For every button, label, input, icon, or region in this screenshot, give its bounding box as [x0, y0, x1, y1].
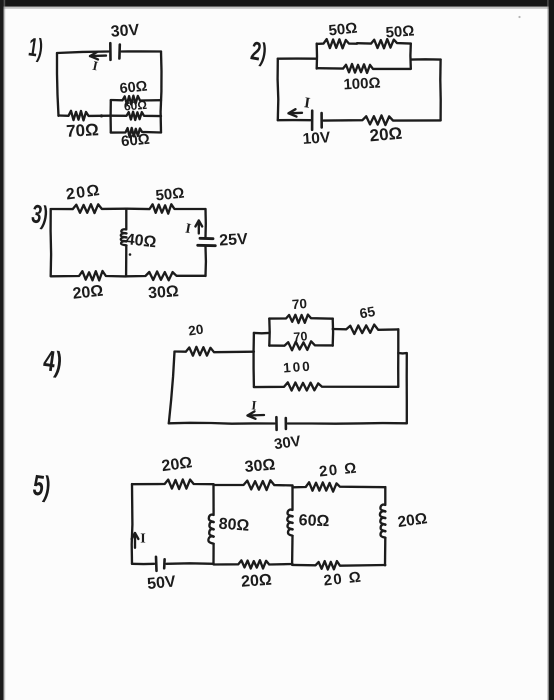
current arrow I (C1) [90, 54, 106, 57]
resistor 100 (C4 middle) [254, 382, 398, 390]
wire: C1 top-right segment [122, 50, 162, 52]
wire: C4 bottom-left segment [169, 422, 275, 425]
resistor 30Ω (C5 top 2) [214, 480, 293, 490]
scan border: left black bar [0, 0, 4, 700]
resistor 20Ω (C2 bottom) [324, 115, 441, 125]
wire: C2 left connector [278, 57, 317, 59]
battery 30V (C1) [109, 43, 112, 60]
wire: C5 bottom segment battery to J1 [167, 562, 214, 565]
wire: C2 box right edge [409, 44, 412, 69]
wire: C2 left side [276, 59, 279, 120]
current arrow I (C2) [289, 112, 303, 115]
svg-text:60Ω: 60Ω [123, 98, 147, 114]
stray scan speck (top right) [518, 16, 520, 18]
svg-text:20Ω: 20Ω [369, 124, 403, 146]
resistor 50Ω (C2 series 2) [357, 39, 411, 48]
resistor 60Ω (C1 parallel middle) [111, 112, 161, 120]
resistor 80Ω (C5 vertical 1) [208, 485, 213, 564]
current arrow up (C3) [198, 221, 200, 234]
resistor 20 (C4 left) [175, 347, 254, 356]
svg-text:80Ω: 80Ω [218, 516, 250, 535]
resistor 70 (C4 parallel bottom) [269, 341, 332, 350]
battery 30V (C4) [275, 417, 278, 430]
current arrow I (C4) [248, 414, 265, 417]
svg-text:50V: 50V [146, 573, 176, 593]
resistor 60Ω (C1 parallel bottom) [111, 128, 161, 137]
svg-text:50Ω: 50Ω [155, 185, 185, 205]
resistor 50Ω (C2 series 1) [317, 39, 357, 48]
wire: C1 right side [159, 52, 162, 133]
wire: C2 bottom-left segment [278, 119, 311, 121]
resistor 50Ω (C3 top-right) [126, 204, 205, 213]
wire: C5 left side [131, 484, 134, 564]
wire: C2 right side [439, 60, 442, 121]
battery 10V (C2) [311, 111, 314, 130]
wire: C3 right side lower [204, 247, 207, 277]
resistor 65 (C4) [333, 325, 399, 334]
resistor 70 (C4 parallel top) [269, 315, 332, 323]
svg-text:50Ω: 50Ω [385, 22, 415, 41]
svg-text:50Ω: 50Ω [328, 20, 358, 40]
wire: C3 right side upper [204, 209, 207, 237]
wire: C4 connector to parallel box [254, 332, 269, 335]
svg-text:65: 65 [358, 303, 376, 321]
battery 25V (C3, in right side) [200, 237, 213, 240]
wire: C4 right stub to outer edge [398, 353, 407, 423]
current arrow up (C5) [134, 533, 136, 548]
svg-text:70: 70 [293, 329, 308, 344]
resistor 60Ω (C5 vertical 2) [287, 486, 292, 565]
resistor 30Ω (C3 bottom-right) [126, 272, 205, 281]
svg-text:20: 20 [187, 322, 204, 339]
resistor 20Ω (C3 top-left) [51, 204, 127, 213]
svg-text:20Ω: 20Ω [72, 283, 104, 303]
scan border: right black bar [549, 0, 554, 700]
svg-text:70Ω: 70Ω [66, 120, 99, 141]
wire: C4 bottom-right segment [288, 422, 407, 425]
wire: C3 left side [49, 209, 52, 276]
wire: C4 box left edge [268, 319, 271, 346]
resistor 60Ω (C1 parallel top) [111, 96, 161, 105]
resistor 100Ω (C2 parallel) [317, 64, 411, 73]
svg-text:30Ω: 30Ω [244, 456, 276, 476]
svg-text:20Ω: 20Ω [241, 572, 273, 591]
resistor 40Ω (C3 middle vertical) [121, 209, 127, 276]
wire: C2 right connector [411, 58, 441, 61]
svg-text:30V: 30V [110, 22, 140, 41]
resistor 20 Ω (C5 bottom 2) [293, 561, 386, 569]
wire: C1 left side [57, 53, 59, 116]
svg-text:30Ω: 30Ω [148, 283, 180, 302]
svg-text:100: 100 [283, 359, 313, 376]
resistor 20Ω (C3 bottom-left) [51, 271, 127, 280]
wire: C4 box right edge [332, 319, 335, 346]
scan border: top black bar [0, 0, 554, 7]
svg-text:I: I [140, 532, 145, 547]
svg-text:70: 70 [291, 296, 307, 312]
resistor 20Ω (C5 bottom 1) [214, 560, 293, 568]
resistor 20Ω (C5 top 3) [293, 482, 386, 491]
wire: C2 box left edge [316, 44, 319, 69]
svg-text:40Ω: 40Ω [125, 231, 157, 251]
battery 50V (C5) [155, 557, 158, 571]
svg-text:25V: 25V [219, 231, 249, 249]
wire: C1 parallel-box left edge [109, 100, 112, 132]
ink dot below 40Ω resistor (C3) [129, 253, 132, 256]
wire: C4 left side [169, 352, 175, 424]
svg-text:60Ω: 60Ω [120, 131, 150, 150]
svg-text:10V: 10V [302, 129, 331, 148]
svg-text:60Ω: 60Ω [119, 78, 149, 97]
svg-text:100Ω: 100Ω [343, 75, 381, 94]
wire: C1 top-left segment [57, 52, 109, 54]
wire: C4 junction vertical [252, 333, 255, 387]
wire: C5 bottom-left segment [132, 563, 154, 566]
junction dot (C1 bottom wire / box) [100, 114, 103, 117]
resistor 20Ω (C5 top 1) [132, 480, 214, 490]
resistor 20Ω (C5 right vertical) [380, 487, 386, 565]
resistor 70Ω (C1 bottom-left) [59, 111, 111, 121]
wire: C4 right vertical (65 to 100 node) [397, 329, 399, 387]
svg-text:60Ω: 60Ω [298, 512, 329, 530]
